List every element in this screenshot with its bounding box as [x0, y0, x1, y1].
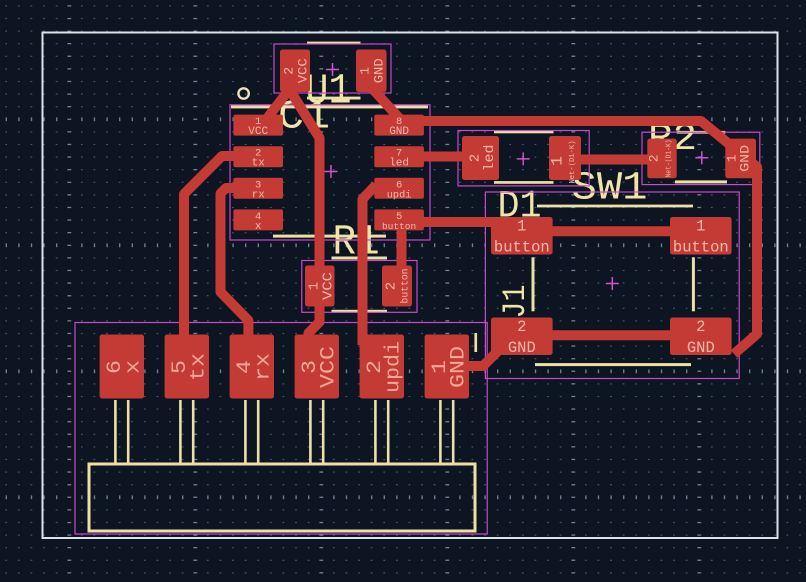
svg-text:1: 1	[358, 67, 373, 75]
svg-text:GND: GND	[738, 145, 753, 172]
wire net D1-K from D1 pad1 to R2 pad2	[575, 155, 653, 165]
connector J1 pad 2 updi	[360, 335, 406, 399]
switch SW1 pad 2 GND right	[670, 318, 732, 358]
wire button between SW1 pad1 left and pad1 right	[540, 226, 683, 236]
connector J1 silkscreen leads pad 1	[439, 400, 442, 464]
svg-text:Net-(D1-K): Net-(D1-K)	[569, 141, 577, 184]
op-amp U1 pad 8 GND	[374, 115, 424, 139]
connector J1 silkscreen leads pad 6	[114, 400, 117, 464]
svg-text:VCC: VCC	[317, 346, 340, 388]
resistor R2 courtyard	[642, 132, 760, 184]
wire GND from C1 pad1 to U1 pad8	[369, 85, 400, 119]
capacitor C1 pad 1 GND	[356, 50, 387, 93]
connector J1 silkscreen leads pad 5	[179, 400, 182, 464]
svg-text:GND: GND	[447, 346, 470, 388]
switch SW1 pad 1 button right	[670, 217, 732, 257]
connector J1 pad 3 VCC	[295, 335, 341, 399]
wire button from U1 pad5 to R1 pad2	[397, 226, 407, 272]
connector J1 silkscreen card-edge rectangle	[89, 464, 475, 531]
resistor R1 courtyard	[302, 261, 417, 313]
switch SW1 pad 1 button left	[491, 217, 553, 257]
connector J1 pad 6 x	[100, 335, 146, 399]
svg-text:R1: R1	[333, 218, 380, 267]
connector J1 pad 5 tx	[165, 335, 211, 399]
svg-text:button: button	[382, 221, 416, 232]
wire tx from U1 pad2 to J1 pad5	[184, 156, 236, 345]
svg-text:updi: updi	[387, 189, 412, 201]
LED D1 anchor cross	[517, 152, 530, 165]
wire rx from U1 pad3 to J1 pad4	[221, 188, 249, 345]
svg-text:rx: rx	[252, 189, 266, 201]
capacitor C1 pad 2 VCC	[280, 50, 311, 93]
svg-text:GND: GND	[508, 339, 536, 357]
svg-text:VCC: VCC	[321, 272, 337, 300]
LED D1 courtyard	[458, 131, 589, 186]
svg-text:GND: GND	[687, 339, 715, 357]
resistor R1 pad 1 VCC	[305, 266, 337, 307]
op-amp U1 silkscreen bottom line	[273, 235, 386, 238]
svg-text:VCC: VCC	[296, 58, 311, 83]
svg-text:GND: GND	[372, 58, 387, 83]
LED D1 silkscreen bottom line	[494, 181, 554, 184]
resistor R1 silkscreen bottom line	[332, 310, 388, 313]
op-amp U1 pad 2 tx	[233, 146, 283, 170]
connector J1 silkscreen pin-1 side vertical line	[474, 333, 477, 352]
resistor R1 pad 2 button	[382, 266, 412, 307]
svg-text:led: led	[483, 145, 498, 172]
wire VCC from C1 pad2 through R1 pad1 to J1 pad3	[288, 87, 320, 352]
connector J1 pad 4 rx	[230, 335, 276, 399]
wire button from U1 pad5 to SW1 pad1 left	[420, 217, 497, 227]
svg-text:tx: tx	[252, 158, 266, 170]
svg-text:button: button	[494, 239, 550, 257]
op-amp U1 pad 5 button	[374, 209, 424, 232]
capacitor C1 anchor cross	[326, 63, 339, 76]
svg-text:GND: GND	[389, 126, 409, 138]
connector J1 silkscreen leads pad 3	[309, 400, 312, 464]
resistor R2 anchor cross	[695, 151, 708, 164]
op-amp U1 pad 1 VCC	[233, 115, 283, 139]
svg-text:led: led	[389, 158, 409, 170]
resistor R1 silkscreen top line	[332, 257, 388, 260]
resistor R2 silkscreen bottom line	[675, 180, 727, 183]
capacitor C1 silkscreen bottom line	[307, 97, 361, 100]
switch SW1 silkscreen bottom line	[535, 363, 691, 366]
switch SW1 anchor cross	[606, 277, 619, 290]
wire GND from J1 pad1 to SW1 pad2 left	[448, 350, 499, 366]
svg-text:rx: rx	[252, 353, 275, 381]
wire GND from U1 pad8 to R2 pad1 to SW1 pad2 right	[420, 121, 757, 354]
svg-text:button: button	[400, 269, 412, 304]
wire updi from U1 pad6 to J1 pad2	[363, 185, 377, 345]
wire VCC from C1 pad2 to U1 pad1	[268, 86, 292, 117]
connector J1 courtyard	[75, 323, 487, 535]
svg-text:SW1: SW1	[572, 167, 648, 212]
svg-text:1: 1	[517, 218, 526, 236]
wire GND between SW1 pad2 left and pad2 right	[540, 330, 683, 340]
op-amp U1 pad 6 updi	[374, 178, 424, 202]
resistor R2 pad 1 GND	[725, 139, 757, 179]
svg-text:J1: J1	[497, 285, 534, 319]
op-amp U1 silkscreen top line	[231, 105, 428, 108]
svg-text:2: 2	[384, 282, 400, 290]
svg-text:1: 1	[696, 218, 705, 236]
resistor R2 silkscreen top line	[677, 131, 726, 134]
resistor R2 pad 2 net D1-K	[647, 139, 677, 179]
LED D1 silkscreen top line	[494, 131, 554, 134]
svg-text:2: 2	[696, 318, 705, 336]
switch SW1 silkscreen left vertical line	[532, 257, 535, 311]
capacitor C1 silkscreen top line	[307, 42, 361, 45]
svg-text:2: 2	[282, 67, 297, 75]
op-amp U1 pad 7 led	[374, 146, 424, 170]
connector J1 silkscreen leads pad 2	[374, 400, 377, 464]
switch SW1 silkscreen top line	[537, 205, 693, 208]
connector J1 pad 1 GND	[425, 335, 471, 399]
op-amp U1 anchor cross	[325, 165, 338, 178]
svg-text:updi: updi	[382, 341, 405, 393]
switch SW1 courtyard	[485, 192, 739, 379]
svg-text:VCC: VCC	[248, 126, 268, 138]
svg-text:button: button	[673, 239, 729, 257]
LED D1 pad 2 led	[462, 136, 499, 180]
wire led from U1 pad7 to D1 pad2	[418, 152, 470, 162]
op-amp U1 pad 3 rx	[233, 178, 283, 202]
svg-text:x: x	[122, 360, 145, 374]
svg-text:tx: tx	[187, 353, 210, 381]
switch SW1 silkscreen right vertical line	[692, 257, 695, 311]
sheet border frame	[43, 33, 778, 539]
svg-text:Net-(D1-K): Net-(D1-K)	[666, 139, 674, 177]
svg-text:2: 2	[517, 318, 526, 336]
svg-text:x: x	[255, 221, 262, 233]
capacitor C1 courtyard	[274, 44, 391, 93]
svg-text:2: 2	[468, 154, 484, 162]
op-amp U1 pad 4 x	[233, 209, 283, 233]
switch SW1 pad 2 GND left	[491, 318, 553, 358]
LED D1 pad 1 net D1-K	[549, 136, 582, 184]
U1 pin-1 silkscreen circle	[238, 88, 248, 98]
svg-text:2: 2	[647, 154, 662, 162]
connector J1 silkscreen leads pad 4	[244, 400, 247, 464]
op-amp U1 courtyard	[230, 105, 430, 240]
svg-text:1: 1	[549, 156, 567, 166]
